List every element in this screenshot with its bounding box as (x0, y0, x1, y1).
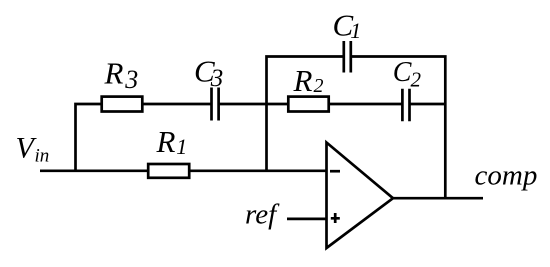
svg-text:C: C (393, 57, 412, 88)
op-amp inverting input mark (330, 170, 340, 173)
resistor R1 (148, 164, 189, 178)
wire: op-amp output to comp (393, 197, 483, 200)
svg-text:3: 3 (124, 65, 138, 94)
svg-text:2: 2 (314, 75, 324, 97)
svg-text:R: R (293, 63, 313, 98)
resistor R3 (102, 97, 143, 112)
wire: Vin input rail to op-amp inverting input (40, 169, 327, 172)
svg-text:ref: ref (245, 199, 280, 231)
capacitor C1 (344, 41, 351, 73)
svg-text:1: 1 (176, 134, 187, 159)
svg-text:2: 2 (411, 67, 422, 91)
capacitor C2 (402, 89, 409, 121)
wire: Vin node up through R3 branch to C3 left plate (76, 104, 212, 171)
svg-text:R: R (156, 124, 176, 159)
wire: ref to op-amp non-inverting input (287, 218, 327, 221)
svg-text:3: 3 (210, 65, 224, 92)
wire: C2 right plate to right feedback rail (410, 103, 446, 106)
op-amp U1 (327, 143, 394, 249)
wire: summing node through R2 to C2 left plate (267, 103, 403, 106)
svg-text:in: in (35, 145, 50, 166)
wire: C3 right plate to summing node (219, 103, 267, 106)
svg-text:1: 1 (350, 18, 361, 43)
op-amp non-inverting input mark (331, 213, 340, 223)
wire: C3 right plate to summing node, down to inverting input (267, 57, 344, 171)
wire: C1 right plate to right feedback rail, down to output node (351, 57, 446, 199)
svg-text:R: R (104, 56, 124, 91)
capacitor C3 (212, 88, 219, 121)
svg-text:comp: comp (475, 159, 538, 191)
resistor R2 (288, 97, 328, 112)
